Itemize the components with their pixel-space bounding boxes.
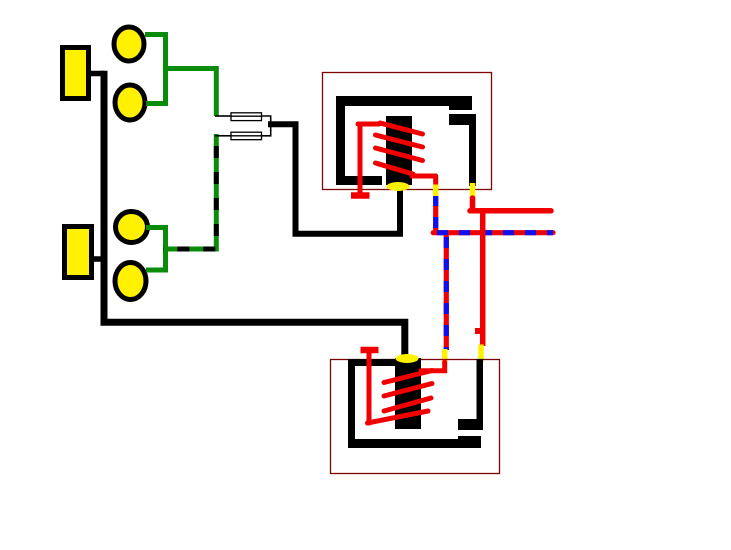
wire: red/blue dashed branch to relay K2 coil [444,235,449,350]
wire: black from fuses to relay K1 coil [268,124,400,234]
relay K1 terminal 85 yellow [433,185,439,197]
relay K2 frame bottom-right block [458,436,481,448]
lamp L4 [115,263,146,300]
wire: green/black dashed trunk to fuse F2 [163,134,216,249]
relay K1 coil core [386,116,412,185]
relay K2 terminal 86 yellow [442,349,448,364]
wire: green L2 feed [146,71,166,104]
wire: thin link dashed-green to F2 [215,135,231,137]
relay K2 frame top stub [348,359,396,366]
lamp L3 [116,212,148,243]
relay K2 terminal 30 yellow [478,345,484,363]
relay K2 case [331,360,500,474]
relay K1 frame bottom stub [336,176,382,185]
relay K2 frame left bar [348,359,355,448]
relay K2 frame bottom bar [348,439,481,448]
wire: red/blue dashed horizontal to right stub [433,230,553,235]
wire: green L4 feed [146,251,166,270]
relay K1 contact foot [449,114,476,125]
wire: black bus J1/J2 to relay K2 core [104,71,405,357]
wire: J1 stub to black bus [90,71,104,77]
relay K1 terminal 30 yellow [470,183,476,200]
wire: red from K1 terminal 30 to right stub [470,198,551,211]
wire: green L3 feed [146,228,166,248]
lamp L1 [114,27,144,61]
relay K2 coil ground terminal T [361,347,379,354]
fuse F1 [231,113,262,121]
wire: J2 stub to black bus [92,256,104,262]
relay K2 coil winding [368,351,445,423]
wire: thin links F1/F2 to junction [262,116,271,136]
relay K1 frame top-right block [449,96,472,110]
wire: thin link green to F1 [215,115,231,117]
wire: green L1 feed [145,35,166,67]
fuse F2 [231,132,262,140]
lamp L2 [115,85,145,120]
wire: red/blue dashed from K1 terminal 85 down [433,196,438,235]
relay K1 coil ground terminal T [351,192,370,199]
relay K1 case [323,73,492,190]
relay K1 core bottom cap [387,182,410,191]
relay K2 contact foot [458,419,483,430]
relay K1 contact bar [469,114,476,186]
relay K1 frame left bar [336,96,345,185]
relay K2 contact bar [477,359,484,420]
wire: green trunk to fuse F1 [163,69,216,117]
wire: red feed to relay K2 contact [480,211,486,346]
power block J1 [63,48,89,99]
relay K2 coil core [395,358,421,429]
relay K2 core top cap [396,354,419,363]
relay K1 coil winding [358,123,436,193]
power block J2 [65,227,92,278]
relay K1 frame top bar [336,96,472,106]
node: red wire nub [475,328,480,334]
